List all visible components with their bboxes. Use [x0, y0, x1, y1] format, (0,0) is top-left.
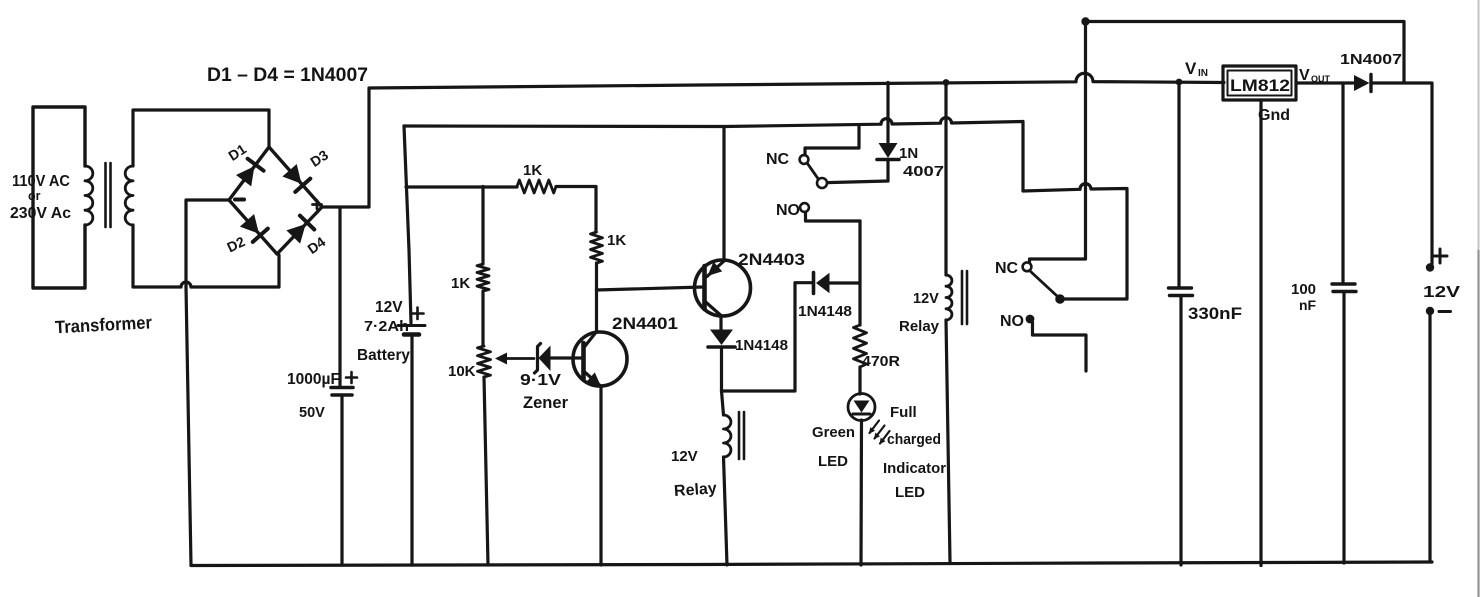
svg-text:V: V — [1185, 59, 1197, 78]
svg-text:Green: Green — [812, 424, 855, 441]
svg-text:LED: LED — [895, 484, 925, 501]
svg-text:4007: 4007 — [903, 163, 944, 180]
svg-text:12V: 12V — [375, 299, 403, 316]
svg-text:1N4007: 1N4007 — [1340, 51, 1402, 68]
svg-text:230V Ac: 230V Ac — [10, 205, 71, 222]
svg-text:NC: NC — [766, 151, 790, 168]
svg-text:NC: NC — [995, 260, 1019, 277]
svg-text:LED: LED — [818, 453, 848, 470]
svg-text:12V: 12V — [1423, 284, 1460, 301]
svg-text:V: V — [1299, 67, 1310, 84]
svg-text:NO: NO — [1000, 313, 1024, 330]
svg-text:9·1V: 9·1V — [520, 372, 561, 389]
svg-text:Relay: Relay — [674, 480, 718, 500]
svg-text:NO: NO — [776, 202, 800, 219]
svg-text:110V AC: 110V AC — [12, 173, 70, 190]
svg-text:or: or — [28, 189, 41, 203]
svg-text:OUT: OUT — [1311, 74, 1331, 84]
svg-text:100: 100 — [1291, 281, 1316, 298]
svg-text:12V: 12V — [913, 291, 939, 307]
svg-text:Zener: Zener — [523, 393, 568, 412]
svg-text:D1 – D4 = 1N4007: D1 – D4 = 1N4007 — [207, 64, 368, 86]
svg-text:2N4401: 2N4401 — [612, 315, 678, 333]
svg-text:1K: 1K — [607, 232, 626, 249]
svg-text:1N4148: 1N4148 — [798, 304, 852, 320]
svg-text:1000µF: 1000µF — [287, 371, 340, 388]
svg-text:IN: IN — [1198, 68, 1208, 79]
svg-text:Gnd: Gnd — [1258, 107, 1290, 124]
svg-text:Full: Full — [890, 404, 917, 421]
svg-text:2N4403: 2N4403 — [738, 251, 805, 269]
svg-text:10K: 10K — [448, 363, 476, 380]
svg-text:1N4148: 1N4148 — [735, 338, 788, 354]
svg-text:1K: 1K — [523, 162, 542, 179]
svg-text:1N: 1N — [899, 145, 918, 162]
svg-text:Relay: Relay — [899, 318, 940, 335]
svg-text:470R: 470R — [862, 354, 901, 370]
svg-text:nF: nF — [1299, 297, 1317, 313]
svg-text:330nF: 330nF — [1188, 305, 1242, 323]
svg-text:1K: 1K — [451, 275, 470, 292]
svg-text:12V: 12V — [671, 448, 698, 465]
svg-text:50V: 50V — [299, 405, 325, 421]
svg-text:Battery: Battery — [357, 347, 410, 364]
svg-text:Indicator: Indicator — [883, 460, 946, 477]
svg-text:LM812: LM812 — [1230, 76, 1290, 95]
svg-text:charged: charged — [887, 431, 941, 448]
svg-text:7·2Ah: 7·2Ah — [364, 319, 409, 335]
